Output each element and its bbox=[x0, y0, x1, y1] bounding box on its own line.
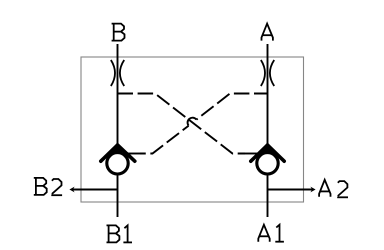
wire: port B2 horizontal line bbox=[72, 189, 118, 191]
check valve A1: seat arms bbox=[251, 145, 284, 161]
label A (top right port) bbox=[262, 24, 273, 41]
enclosure box (valve body outline) bbox=[81, 57, 304, 202]
wire: port A2 horizontal line bbox=[268, 189, 314, 191]
check valve B1: ball circle bbox=[107, 153, 128, 174]
label B1 (bottom left port) bbox=[107, 225, 133, 242]
pilot line 2 upper part (dashed, from A junction toward crossing) bbox=[196, 94, 267, 120]
check valve A1: poppet triangle bbox=[261, 143, 274, 152]
pilot line 1 (dashed, from B junction to A-side check valve) bbox=[118, 94, 246, 154]
check valve B1: seat arms bbox=[101, 145, 135, 161]
check valve B1: poppet triangle bbox=[111, 143, 124, 152]
orifice restriction on B line bbox=[111, 60, 124, 86]
wire: port A1 vertical line (lower) bbox=[267, 175, 269, 218]
wire: port B vertical line (upper) bbox=[117, 44, 119, 147]
wire: port A vertical line (upper) bbox=[267, 44, 269, 147]
pilot stub at left check valve bbox=[127, 153, 141, 155]
orifice restriction on A line bbox=[261, 60, 274, 86]
label A2 (right side port) bbox=[319, 180, 348, 197]
crossover hop arc bbox=[188, 118, 197, 126]
port B2 arrow marker bbox=[69, 187, 74, 193]
check valve A1: ball circle bbox=[257, 153, 278, 174]
label A1 (bottom right port) bbox=[258, 225, 284, 242]
pilot stub at right check valve bbox=[243, 153, 258, 155]
label B (top left port) bbox=[112, 24, 125, 41]
pilot line 2 lower part (dashed, from crossing to B-side check valve) bbox=[140, 126, 189, 154]
wire: port B1 vertical line (lower) bbox=[117, 175, 119, 218]
port A2 arrow marker bbox=[310, 187, 315, 193]
label B2 (left side port) bbox=[34, 178, 62, 195]
